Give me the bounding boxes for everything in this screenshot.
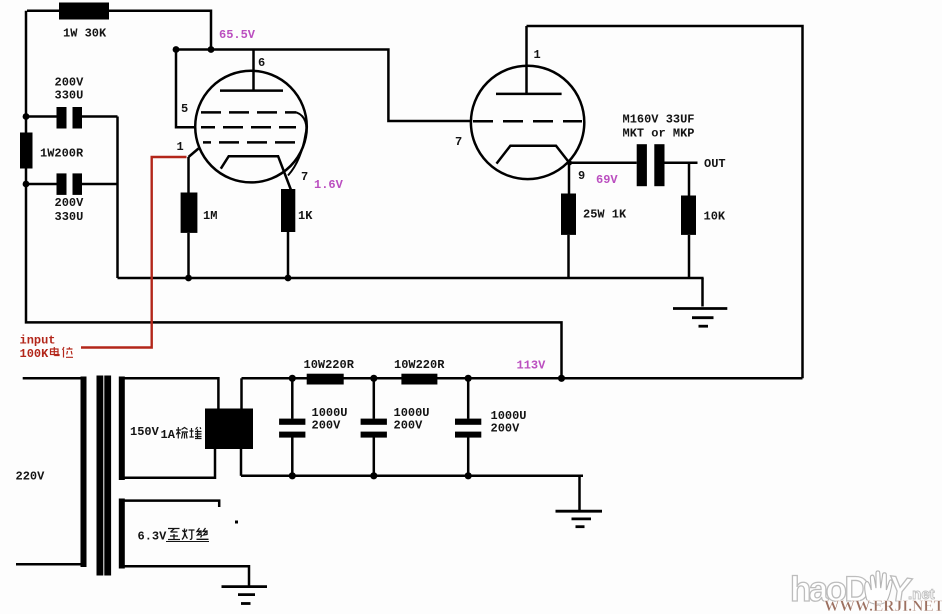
wire 150V bottom to bridge [125,449,216,478]
svg-text:10W220R: 10W220R [394,358,445,372]
transformer 150V secondary winding [119,377,125,481]
wire OUT down to 10K [688,163,691,196]
junction cap A left rail [23,113,30,120]
capacitor 330U bottom [57,173,67,195]
resistor 10W220R first [307,374,344,385]
wire 150V top to bridge [125,378,219,409]
tube V2 grid dashed [473,120,582,123]
wire DC+ rail [242,377,803,380]
wire tube2 plate top rail [527,26,803,378]
input red wire [81,157,187,348]
capacitor 1000U third [455,419,481,425]
tube V2 envelope [471,66,584,179]
svg-text:MKT or MKP: MKT or MKP [623,127,695,141]
tube V2 plate [496,93,562,96]
wire bridge DC- down [240,449,243,476]
svg-text:200V: 200V [312,419,342,433]
underline of 6.3V至灯丝 [166,541,209,543]
wire 25W 1K top [568,163,571,194]
capacitor 1000U first [279,419,305,425]
resistor 1W200R [20,133,33,169]
wire cap A right [82,115,118,118]
wire cap A left [26,115,57,118]
svg-text:200V: 200V [55,196,85,210]
capacitor M160V 33UF [637,144,647,186]
junction 113V node [558,375,565,382]
wire bridge DC+ up [240,378,243,409]
wire resistor to right then down [109,11,211,50]
char 桥 (of 1A桥堆) [176,427,188,439]
resistor 1W 30K [59,3,109,20]
bridge rectifier 1A [205,409,253,450]
svg-text:1W200R: 1W200R [40,147,84,161]
svg-text:1M: 1M [203,209,217,223]
char 灯 (of 6.3V至灯丝) [182,529,195,540]
wire cap rail down to ground bus [116,117,119,279]
svg-text:6: 6 [258,56,265,70]
wire left rail [26,11,562,379]
tube V1 grid arc [288,112,306,175]
svg-text:1W 30K: 1W 30K [63,27,107,41]
junction cap3 bottom [465,472,472,479]
tube V1 cathode [221,156,291,190]
wire cap3 verticals [467,378,470,476]
wire 1K bottom [287,232,290,278]
transformer 6.3V secondary winding [119,499,125,569]
ground 6.3V [222,587,268,604]
svg-text:10K: 10K [704,210,726,224]
wire pin5 feed [176,50,196,128]
svg-text:330U: 330U [55,89,84,103]
wire pin6 plate feed [252,50,255,91]
svg-text:WWW.ERJI.NET: WWW.ERJI.NET [824,598,942,614]
junction cap1 bottom [289,472,296,479]
wire top-left horizontal to resistor [27,9,59,12]
svg-text:200V: 200V [491,422,521,436]
tube V1 envelope [195,71,307,183]
svg-text:input: input [20,334,56,348]
transformer primary winding [81,377,87,568]
junction 1K ground bus [285,275,292,282]
svg-text:6.3V: 6.3V [138,530,168,544]
svg-text:1K: 1K [298,209,313,223]
svg-text:7: 7 [455,135,462,149]
svg-text:65.5V: 65.5V [219,28,256,42]
wire cap1 verticals [291,378,294,476]
svg-text:113V: 113V [517,359,547,373]
wire 6.3V bottom to ground [125,566,250,586]
svg-text:1.6V: 1.6V [314,178,344,192]
svg-text:25W 1K: 25W 1K [583,208,627,222]
wire DC- rail [241,476,583,511]
capacitor 1000U second [361,419,387,425]
tube V2 cathode [497,146,570,164]
wire 220V primary top [23,377,81,380]
wire B+ rail y=49.5 to tube2 grid [176,50,472,122]
char 电 (of 100K电位) [51,347,60,356]
wire cap B right [82,183,118,186]
junction cap2 top [370,375,377,382]
svg-text:200V: 200V [394,419,424,433]
ground PSU [556,511,603,527]
junction cap3 top [465,375,472,382]
wire 220V primary bottom [16,563,81,566]
junction pin9 node [567,160,572,165]
junction B+ node left [173,46,180,53]
svg-text:1: 1 [534,48,541,62]
wire cap to OUT [665,162,698,165]
capacitor 330U top [57,107,67,129]
wire tube2 pin1 [525,26,528,94]
tube V1 plate [220,89,283,92]
junction B+ node right [208,46,215,53]
resistor 10K [681,196,696,235]
junction 1M ground bus [185,275,192,282]
svg-text:5: 5 [181,102,188,116]
char 位 (of 100K电位) [63,347,74,358]
wire pin1 diagonal [189,149,199,158]
svg-text:9: 9 [578,169,585,183]
svg-text:330U: 330U [55,210,84,224]
resistor 10W220R second [401,374,437,385]
wire cap B left [26,183,57,186]
watermark hand glyph [865,571,893,604]
ground OUT network [673,309,727,327]
wire ground1 stem [701,278,704,307]
svg-text:1A: 1A [161,428,176,442]
resistor 1M [181,193,198,233]
stray dot mark [235,521,238,524]
svg-text:M160V 33UF: M160V 33UF [623,113,695,127]
watermark haoDIY logo [790,569,935,611]
svg-text:150V: 150V [130,425,160,439]
wire pin9 to coupling cap [570,162,637,165]
resistor 25W 1K [561,194,576,235]
wire pin1 to 1M [187,157,190,193]
resistor 1K [281,189,295,232]
junction cap1 top [289,375,296,382]
svg-text:100K: 100K [20,347,50,361]
svg-text:69V: 69V [596,173,618,187]
wire 1M bottom [187,233,190,278]
wire ground bus y=278 [118,277,704,280]
wire 10K bottom [688,235,691,278]
junction cap B left rail [23,181,30,188]
svg-text:1: 1 [177,140,184,154]
wire 25W 1K bottom [567,235,570,278]
svg-text:10W220R: 10W220R [304,358,355,372]
char 丝 (of 6.3V至灯丝) [197,528,209,539]
wire 6.3V top [125,501,220,507]
junction cap2 bottom [370,472,377,479]
transformer core [97,376,104,576]
char 堆 (of 1A桥堆) [190,427,202,439]
svg-text:7: 7 [301,170,308,184]
tube V1 grid rows [201,112,298,142]
char 至 (of 6.3V至灯丝) [168,529,180,540]
svg-text:200V: 200V [55,76,85,90]
svg-text:220V: 220V [16,470,46,484]
wire cap2 verticals [373,378,376,476]
svg-text:OUT: OUT [704,157,726,171]
